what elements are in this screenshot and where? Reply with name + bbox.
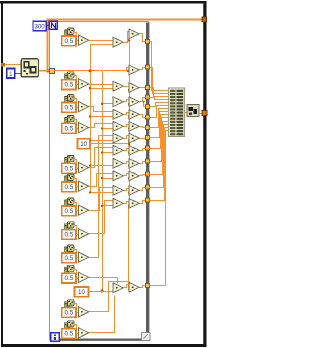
wire C4 out to tunnel (140, 98, 147, 102)
random number dice row 10 (64, 265, 74, 273)
random number dice row 11 (64, 300, 74, 308)
loop border tunnel 9 (146, 146, 150, 150)
multiply triangle C6 (129, 122, 139, 132)
multiply triangle C7 (129, 133, 139, 143)
bus B branch to B4 bottom (102, 103, 113, 105)
loop count terminal N (49, 21, 57, 29)
wire r11 out riser to C13 top (89, 282, 130, 312)
wire B10 out to C11 (124, 189, 130, 191)
bus B branch to B6 bottom (102, 128, 113, 130)
wire dice to multiply row 7 (74, 203, 77, 208)
multiply triangle B6 (113, 133, 123, 143)
wire B5 out to C6 (124, 125, 130, 127)
wire C9 out to tunnel (140, 162, 147, 164)
wire C11 out to tunnel (140, 188, 147, 191)
wire 0.5 to multiply row 1 (76, 40, 78, 42)
multiply triangle A row 9 (78, 252, 88, 262)
loop border tunnel 14 (146, 284, 150, 288)
fan wire 5 (150, 103, 169, 107)
multiply triangle B1 (113, 37, 123, 47)
wire 0.5 to multiply row 11 (76, 312, 78, 314)
wire indicator to outer frame tunnel (199, 113, 202, 115)
multiply triangle C2 (129, 65, 139, 75)
wire B9 out to C10 (124, 174, 130, 176)
junction before loop tunnel (46, 69, 49, 72)
constant 0.5 row 8 (62, 230, 76, 240)
loop border tunnel 7 (146, 125, 150, 129)
wire 0.5 to multiply row 6 (76, 186, 78, 188)
wire 0.5 to multiply row 10 (76, 278, 78, 280)
wire r5 out riser to B8 top (89, 148, 114, 168)
wire C2 out to tunnel (140, 68, 147, 70)
multiply triangle B7 (113, 146, 123, 156)
bus A branch to B3 bottom (90, 88, 113, 90)
wire r7 out riser to B11 top (89, 188, 114, 211)
wire build array to indicator icon (185, 112, 187, 114)
wire r10 out riser into B13 top (89, 278, 118, 284)
wire 0.5 to multiply row 12 (76, 333, 78, 335)
bus C branch 3 (129, 116, 132, 118)
bus C branch 2 (129, 104, 132, 106)
wire 0.5 to multiply row 3 (76, 107, 78, 109)
multiply triangle C10 (129, 171, 139, 181)
svg-text:0.5: 0.5 (65, 275, 74, 282)
loop border tunnel 5 (146, 105, 150, 109)
wire dice to multiply row 8 (74, 226, 77, 231)
wire C5 out to tunnel (140, 115, 147, 118)
wire C13 out to tunnel (140, 286, 147, 288)
wire dice to multiply row 6 (74, 179, 77, 184)
tunnel on outer frame right middle (202, 111, 207, 116)
wire bus to C2 top (103, 68, 130, 71)
wire ten1 out into bus C (90, 143, 129, 145)
loop border tunnel 8 (146, 136, 150, 140)
multiply triangle C4 (129, 97, 139, 107)
outer frame bottom (1, 344, 207, 347)
multiply triangle C13 (129, 282, 139, 292)
loop iteration terminal i (51, 333, 60, 342)
bus C branch 9 (129, 192, 132, 194)
multiply triangle B4 (113, 110, 123, 120)
for loop border (50, 21, 149, 340)
svg-text:0.5: 0.5 (65, 184, 74, 191)
for loop right border bar (146, 22, 149, 340)
bus C branch 5 (129, 140, 132, 142)
wire 0.5 to multiply row 7 (76, 210, 78, 212)
wire r8 out riser to B12 top (89, 201, 114, 234)
random number dice row 2 (64, 72, 74, 80)
multiply triangle A row 8 (78, 229, 88, 239)
outer frame right (204, 1, 207, 347)
wire constant 1 to subVI (15, 73, 22, 75)
fan wire 11 (150, 122, 169, 175)
bus A vertical x=90 (90, 45, 92, 193)
constant 0.5 row 5 (62, 163, 76, 173)
stub to C1 bottom (129, 36, 131, 40)
constant 10 lower (75, 287, 89, 297)
loop border tunnel 4 (146, 95, 150, 99)
wire dice to multiply row 2 (74, 76, 77, 81)
wire r4 out to B6 top (89, 124, 114, 128)
svg-text:1: 1 (9, 71, 13, 78)
loop border tunnel 3 (146, 85, 150, 89)
fan wire 9 (150, 115, 169, 149)
wire C6 out to tunnel (140, 127, 147, 128)
loop border tunnel 10 (146, 159, 150, 163)
loop border tunnel 11 (146, 172, 150, 176)
wire B3 out to C4 (124, 100, 130, 102)
multiply triangle A row 5 (78, 162, 88, 172)
wire dice to multiply row 10 (74, 270, 77, 275)
wire 300 to count terminal (46, 25, 49, 27)
fan wire 12 (150, 125, 169, 188)
for loop bottom border bar (50, 339, 149, 341)
wire r2 out to B3 top (89, 84, 114, 86)
chart indicator icon (187, 105, 199, 117)
wire B1 out to C1 top (124, 32, 130, 43)
multiply triangle C3 (129, 83, 139, 93)
wire C8 out to tunnel (140, 149, 147, 151)
loop corner tunnel bottom right (142, 333, 150, 341)
bus B branch to B10 bottom (102, 178, 113, 180)
svg-text:0.5: 0.5 (65, 82, 74, 89)
fan wire 8 (150, 112, 169, 138)
bus B branch to B8 bottom (102, 152, 113, 154)
multiply triangle B8 (113, 159, 123, 169)
random number dice row 6 (64, 174, 74, 182)
fan wire 2 (150, 68, 169, 94)
fan wire 1 (150, 42, 169, 91)
multiply triangle C1 (129, 29, 139, 39)
constant 300 (33, 21, 46, 31)
constant 0.5 row 12 (62, 329, 76, 339)
multiply triangle C12 (129, 199, 139, 209)
bus C branch 4 (129, 128, 132, 130)
bus C vertical x=129 (129, 36, 131, 206)
multiply triangle A row 4 (78, 122, 88, 132)
svg-text:0.5: 0.5 (65, 38, 74, 45)
tunnel on outer frame top-right (202, 17, 207, 22)
constant 10 upper (78, 139, 90, 149)
wire dice to multiply row 11 (74, 304, 77, 309)
loop border tunnel 12 (146, 185, 150, 189)
loop border input tunnel (50, 68, 55, 73)
wire dice to multiply row 1 (74, 33, 77, 38)
wire C10 out to tunnel (140, 175, 147, 176)
multiply triangle C9 (129, 159, 139, 169)
svg-text:10: 10 (80, 142, 87, 148)
bus B branch to B12 bottom (102, 205, 113, 207)
fan wire 7 (150, 109, 169, 128)
bus A branch to B7 bottom (90, 140, 113, 142)
constant 0.5 row 9 (62, 253, 76, 263)
multiply triangle B9 (113, 171, 123, 181)
bus C branch 6 (129, 152, 132, 154)
random number dice row 12 (64, 321, 74, 329)
wire dice to multiply row 3 (74, 99, 77, 104)
wire r1 out to B1 top (89, 40, 114, 42)
wire 0.5 to multiply row 4 (76, 128, 78, 130)
svg-text:0.5: 0.5 (65, 232, 74, 239)
tunnel on outer frame left (1, 63, 5, 67)
fan wire 14 (150, 131, 169, 286)
wire dice to multiply row 4 (74, 120, 77, 125)
multiply triangle B2 (113, 81, 123, 91)
svg-text:0.5: 0.5 (65, 310, 74, 317)
wire tunnel to distribution buses (55, 70, 103, 72)
svg-text:0.5: 0.5 (65, 105, 74, 112)
bus C branch 7 (129, 165, 132, 167)
svg-text:300: 300 (34, 24, 45, 31)
svg-text:10: 10 (78, 290, 85, 296)
wire ten2 and bus B end into B13 bottom (89, 291, 113, 293)
constant 0.5 row 11 (62, 308, 76, 318)
wire B4 out to C5 (124, 113, 130, 115)
bus A branch to B9 bottom (90, 165, 113, 167)
wire subVI output to loop tunnel (38, 70, 49, 72)
random number dice row 1 (64, 28, 74, 36)
wire r12 out riser (89, 296, 115, 333)
wire from subVI up and along loop top (48, 20, 204, 71)
multiply triangle C8 (129, 146, 139, 156)
stub to C2 bottom (129, 70, 131, 72)
fan wire 3 (150, 88, 169, 97)
stub to tunnel t5 (144, 102, 147, 107)
constant 0.5 row 4 (62, 123, 76, 133)
multiply triangle A row 2 (78, 79, 88, 89)
random number dice row 5 (64, 155, 74, 163)
outer frame left (1, 1, 3, 347)
svg-text:0.5: 0.5 (65, 255, 74, 262)
fan wire 6 (150, 106, 169, 118)
build array node (168, 88, 184, 136)
multiply triangle C5 (129, 110, 139, 120)
bus C extension to C13 (128, 206, 130, 289)
multiply triangle A row 6 (78, 181, 88, 191)
constant 0.5 row 1 (62, 36, 76, 46)
wire B11 out to C12 (124, 202, 130, 204)
loop border tunnel 6 (146, 115, 150, 119)
bus A elbow to B1 bottom (90, 44, 113, 46)
wire r3 out to B5 top (89, 107, 114, 112)
multiply triangle B10 (113, 186, 123, 196)
multiply triangle B11 (113, 199, 123, 209)
wire C1 out to tunnel (140, 34, 147, 42)
loop border tunnel 2 (146, 65, 150, 69)
wire B2 out to C3 (123, 86, 129, 88)
wire C12 out to tunnel (140, 201, 147, 204)
multiply triangle A row 3 (78, 102, 88, 112)
loop border tunnel 13 (146, 198, 150, 202)
multiply triangle A row 1 (78, 35, 88, 45)
wire B7 out to C8 (124, 149, 130, 151)
constant 0.5 row 10 (62, 273, 76, 283)
random number dice row 7 (64, 198, 74, 206)
wire 0.5 to multiply row 9 (76, 257, 78, 259)
constant 0.5 row 2 (62, 80, 76, 90)
random number dice row 9 (64, 245, 74, 253)
bus C branch 8 (129, 178, 132, 180)
wire dice to multiply row 5 (74, 160, 77, 165)
multiply triangle B12 (113, 283, 123, 293)
multiply triangle B3 (113, 97, 123, 107)
loop border tunnel 1 (146, 39, 150, 43)
multiply triangle C11 (129, 186, 139, 196)
constant 0.5 row 6 (62, 182, 76, 192)
wire C7 out to tunnel (139, 138, 146, 140)
wire 0.5 to multiply row 2 (76, 84, 78, 86)
random number dice row 3 (64, 95, 74, 103)
constant 0.5 row 3 (62, 103, 76, 113)
outer frame top (0, 1, 207, 3)
wire dice to multiply row 12 (74, 325, 77, 330)
subVI icon (21, 59, 38, 77)
multiply triangle A row 12 (78, 328, 88, 338)
multiply triangle A row 11 (78, 307, 88, 317)
wire C3 out to tunnel (139, 87, 146, 89)
fan wire 4 (150, 98, 169, 100)
wire 0.5 to multiply row 5 (76, 168, 78, 170)
wire r9 out long riser to B7 top (89, 136, 114, 258)
wire B12 out to C13 (124, 285, 130, 288)
random number dice row 4 (64, 115, 74, 123)
bus A branch to B5 bottom (90, 116, 113, 118)
wire from outer frame into subVI (4, 64, 22, 66)
svg-text:0.5: 0.5 (65, 208, 74, 215)
svg-text:0.5: 0.5 (65, 165, 74, 172)
svg-text:0.5: 0.5 (65, 125, 74, 132)
fan wire 10 (150, 118, 169, 162)
constant 1 (7, 68, 15, 78)
fan wire 13 (150, 128, 169, 201)
bus C branch 1 (129, 89, 132, 91)
wire r6 out riser to B10 top (89, 174, 114, 187)
constant 0.5 row 7 (62, 206, 76, 216)
multiply triangle A row 7 (78, 205, 88, 215)
wire 0.5 to multiply row 8 (76, 234, 78, 236)
wire dice to multiply row 9 (74, 250, 77, 255)
bus B vertical x=102 (102, 71, 104, 291)
bus C branch 10 (129, 205, 132, 207)
svg-text:0.5: 0.5 (65, 331, 74, 338)
random number dice row 8 (64, 222, 74, 230)
multiply triangle B5 (113, 122, 123, 132)
wire B8 out to C9 (124, 162, 130, 164)
bus A branch to B11 bottom (90, 192, 113, 194)
wire B6 out to C7 (124, 136, 130, 139)
multiply triangle A row 10 (78, 272, 88, 282)
